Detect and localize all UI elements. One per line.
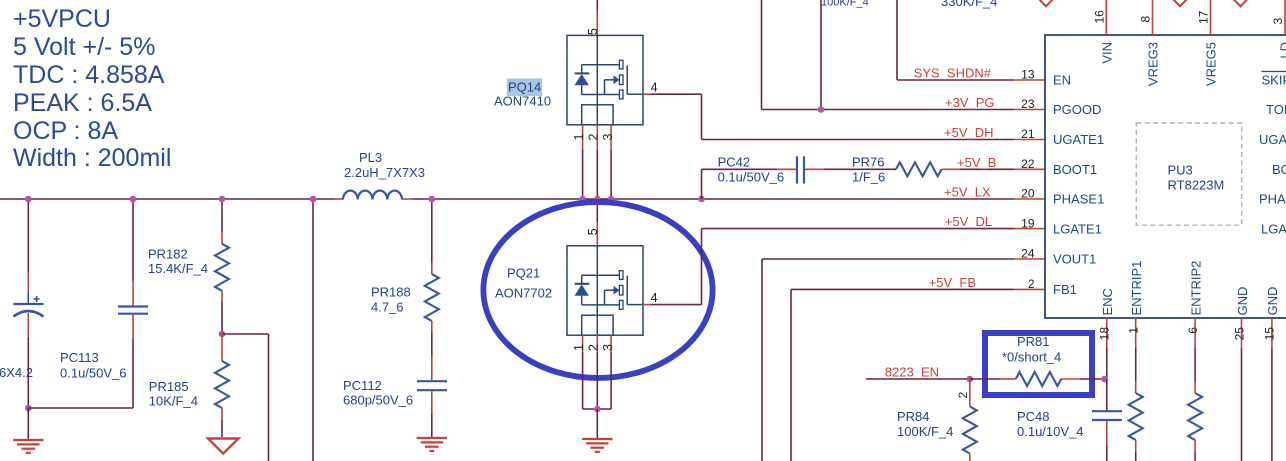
pin number 4 (PQ21) — [651, 291, 658, 305]
svg-text:VIN: VIN — [1100, 42, 1115, 64]
pin 6 number — [1186, 327, 1200, 334]
wire PC42 to PR76 — [805, 168, 897, 170]
svg-text:GND: GND — [1235, 287, 1250, 316]
wire VIN pin 16 — [1105, 0, 1107, 35]
resistor PR188 — [371, 274, 439, 321]
resistor PR84 100K/F_4 — [897, 407, 977, 454]
svg-text:5: 5 — [586, 228, 600, 235]
wire junction to PC113 — [28, 407, 133, 409]
svg-text:19: 19 — [1021, 216, 1035, 230]
wire PQ21 pin 2 — [596, 335, 598, 409]
svg-text:ENTRIP1: ENTRIP1 — [1129, 261, 1144, 316]
svg-text:+3V_PG: +3V_PG — [945, 95, 995, 110]
svg-text:ENC: ENC — [1100, 288, 1115, 315]
svg-text:5 Volt +/- 5%: 5 Volt +/- 5% — [13, 33, 155, 61]
svg-text:EN: EN — [1053, 73, 1071, 88]
svg-text:Width : 200mil: Width : 200mil — [13, 144, 171, 172]
ground (triangle) under PR185 — [208, 439, 239, 454]
wire PC113 to ground wire — [132, 315, 134, 408]
svg-text:1: 1 — [572, 134, 586, 141]
svg-text:PR185: PR185 — [149, 379, 189, 394]
svg-text:21: 21 — [1021, 127, 1035, 141]
capacitor PC42 — [718, 155, 804, 185]
wire PR185 to ground — [221, 408, 223, 437]
wire PC48 to edge — [1106, 421, 1108, 461]
svg-text:UGATE1: UGATE1 — [1053, 132, 1104, 147]
resistor PR182 — [148, 244, 229, 291]
dashed inner box — [1136, 123, 1241, 225]
wire bus down at x=313 — [312, 199, 314, 461]
svg-text:100K/F_4: 100K/F_4 — [897, 424, 953, 439]
wire PQ21 gate pin 4 to LGATE1 — [643, 229, 1045, 305]
svg-text:0.1u/10V_4: 0.1u/10V_4 — [1017, 424, 1084, 439]
svg-text:PR76: PR76 — [852, 155, 885, 170]
svg-text:PU3: PU3 — [1168, 163, 1193, 178]
svg-text:25: 25 — [1232, 327, 1246, 341]
pin 16 number — [1093, 10, 1107, 24]
svg-text:20: 20 — [1021, 187, 1035, 201]
pin name ENC — [1100, 288, 1115, 315]
svg-text:RT8223M: RT8223M — [1168, 178, 1225, 193]
wire VREG3 pin 8 — [1152, 0, 1154, 35]
pin number 2 (PR84) — [956, 392, 970, 399]
svg-text:PQ14: PQ14 — [508, 80, 541, 95]
svg-text:+5V_FB: +5V_FB — [929, 275, 976, 290]
svg-text:1: 1 — [572, 344, 586, 351]
pin 18 number — [1098, 327, 1112, 341]
svg-text:0.1u/50V_6: 0.1u/50V_6 — [718, 170, 785, 185]
wire junction to PR81 — [970, 378, 1016, 380]
net +5V_B — [957, 155, 996, 170]
pin name VIN — [1100, 42, 1115, 64]
svg-text:10K/F_4: 10K/F_4 — [149, 394, 198, 409]
highlight on PQ14 refdes — [507, 79, 542, 97]
node bus x=432 — [429, 196, 436, 203]
wire drain PQ14 pin 5 — [596, 0, 598, 35]
svg-text:8: 8 — [1139, 16, 1153, 23]
node ENC junction — [1101, 376, 1108, 383]
node PQ21 source junction — [594, 406, 601, 413]
node PEC/PC113 ground junction — [25, 405, 32, 412]
pin name partial top right — [1278, 42, 1286, 59]
wire bus to PEC cap — [27, 199, 29, 303]
wire ENTRIP1 pin 1 — [1135, 318, 1137, 393]
node bus PQ14 pin1 — [579, 196, 586, 203]
svg-text:16: 16 — [1093, 10, 1107, 24]
wire PQ14 gate pin 4 to UGATE1 — [643, 94, 1045, 139]
pin 17 number — [1197, 10, 1211, 24]
svg-text:17: 17 — [1197, 10, 1211, 24]
power symbol diamond 3 — [1233, 0, 1248, 6]
svg-text:OCP : 8A: OCP : 8A — [13, 117, 118, 145]
svg-text:ENTRIP2: ENTRIP2 — [1188, 261, 1203, 316]
wire PQ21 pin 3 — [610, 335, 612, 409]
wire junction to PR185 — [221, 334, 223, 361]
wire PQ14 pin 2 — [596, 125, 598, 199]
svg-text:2: 2 — [587, 344, 601, 351]
capacitor PC48 0.1u/10V_4 — [1017, 409, 1122, 439]
pin name GND 15 — [1265, 287, 1280, 316]
pin name GND 25 — [1235, 287, 1250, 316]
svg-text:3: 3 — [601, 134, 615, 141]
resistor PR76 — [852, 155, 941, 185]
wire PR182 to node — [221, 291, 223, 334]
svg-text:PC42: PC42 — [718, 155, 751, 170]
wire bus to PQ21 pin 5 — [596, 199, 598, 246]
svg-text:22: 22 — [1021, 157, 1035, 171]
svg-text:SYS_SHDN#: SYS_SHDN# — [914, 66, 992, 81]
svg-text:VOUT1: VOUT1 — [1053, 252, 1096, 267]
node bus x=313 — [310, 196, 317, 203]
svg-text:2: 2 — [1028, 277, 1035, 291]
capacitor PEC 6X4.2 (electrolytic) — [0, 296, 44, 380]
svg-text:VREG5: VREG5 — [1204, 42, 1219, 86]
svg-text:24: 24 — [1021, 247, 1035, 261]
IC right pin names (partial) — [1259, 72, 1286, 237]
pin 15 number — [1263, 327, 1277, 341]
node bus PQ14 pin2 — [594, 196, 601, 203]
node bus x=133 — [130, 196, 137, 203]
svg-text:SKIP: SKIP — [1262, 73, 1286, 88]
svg-text:GND: GND — [1265, 287, 1280, 316]
svg-text:13: 13 — [1021, 68, 1035, 82]
wire +3V_PG left vertical — [762, 0, 1046, 110]
wire ENC pin 18 — [1106, 318, 1108, 379]
svg-text:LD: LD — [1278, 42, 1286, 59]
svg-text:BOOT1: BOOT1 — [1053, 162, 1097, 177]
pin name ENTRIP1 — [1129, 261, 1144, 316]
svg-text:PR188: PR188 — [371, 285, 411, 300]
pin 8 number — [1139, 16, 1153, 23]
svg-text:1: 1 — [1127, 327, 1141, 334]
svg-text:2: 2 — [587, 134, 601, 141]
highlight box around PR81 — [985, 333, 1092, 395]
svg-text:+5V_LX: +5V_LX — [944, 185, 991, 200]
svg-text:+5V_B: +5V_B — [957, 155, 996, 170]
svg-text:1/F_6: 1/F_6 — [852, 170, 885, 185]
pin number 4 (PQ14) — [651, 81, 658, 95]
wire bus to PC113 — [132, 199, 134, 306]
svg-text:TDC : 4.858A: TDC : 4.858A — [13, 61, 165, 89]
svg-text:PR81: PR81 — [1017, 334, 1050, 349]
pin name VREG5 — [1204, 42, 1219, 86]
svg-text:PHASE2: PHASE2 — [1259, 192, 1286, 207]
wire ENTRIP1 resistor to edge — [1135, 440, 1137, 461]
ground under PQ21 — [582, 439, 612, 452]
node bus PQ14 pin3 — [608, 196, 615, 203]
wire 8223_EN — [866, 378, 970, 380]
power symbol diamond 2 — [1173, 0, 1188, 6]
svg-text:AON7410: AON7410 — [494, 94, 551, 109]
pin 3 number — [1271, 18, 1285, 25]
wire PEC to ground node — [27, 313, 29, 408]
inductor PL3 — [343, 150, 425, 200]
capacitor PC112 — [343, 378, 447, 408]
resistor below ENTRIP2 — [1188, 393, 1202, 440]
svg-text:*0/short_4: *0/short_4 — [1002, 349, 1061, 364]
pin name ENTRIP2 — [1188, 261, 1203, 316]
wire ENTRIP2 pin 6 — [1194, 318, 1196, 393]
svg-text:3: 3 — [1271, 18, 1285, 25]
svg-text:2: 2 — [956, 392, 970, 399]
wire junction right and down — [222, 334, 269, 461]
IC left pin numbers — [1021, 68, 1035, 291]
wire GND pin 25 — [1241, 318, 1243, 461]
capacitor PC113 — [60, 307, 148, 381]
svg-text:23: 23 — [1021, 97, 1035, 111]
pin numbers 1 2 3 (PQ14) — [572, 134, 615, 141]
svg-text:330K/F_4: 330K/F_4 — [941, 0, 997, 9]
net +5V_LX — [944, 185, 991, 200]
wire PR84 to edge — [969, 454, 971, 461]
wire GND pin 15 — [1271, 318, 1273, 461]
op-amp/controller U PU3 RT8223M box — [1045, 35, 1286, 318]
node bus x=28 — [25, 196, 32, 203]
svg-text:PC112: PC112 — [343, 378, 382, 393]
svg-text:4: 4 — [651, 291, 658, 305]
pin name VREG3 — [1146, 42, 1161, 86]
net +5V_DL — [945, 214, 992, 229]
svg-text:15.4K/F_4: 15.4K/F_4 — [148, 261, 208, 276]
svg-text:5: 5 — [586, 28, 600, 35]
wire bus to PR182 — [221, 199, 223, 244]
net +3V_PG — [945, 95, 995, 110]
svg-text:15: 15 — [1263, 327, 1277, 341]
wire PQ14 pin 3 — [610, 125, 612, 199]
wire bus up to BOOT1 row — [701, 169, 703, 199]
svg-text:18: 18 — [1098, 327, 1112, 341]
node bus x=222 — [219, 196, 226, 203]
pin 1 number — [1127, 327, 1141, 334]
net +5V_DH — [944, 125, 994, 140]
node +3V_PG junction — [818, 106, 825, 113]
svg-text:PGOOD: PGOOD — [1053, 102, 1101, 117]
wire BOOT1 row left segment — [702, 168, 797, 170]
svg-text:PC113: PC113 — [60, 350, 99, 365]
svg-text:UGATE2: UGATE2 — [1259, 132, 1286, 147]
svg-text:3: 3 — [601, 344, 615, 351]
svg-text:PEAK : 6.5A: PEAK : 6.5A — [13, 89, 152, 117]
resistor PR81 *0/short_4 — [1002, 334, 1061, 386]
svg-text:LGATE1: LGATE1 — [1053, 221, 1102, 236]
svg-text:PHASE1: PHASE1 — [1053, 192, 1104, 207]
svg-text:8223_EN: 8223_EN — [885, 365, 939, 380]
svg-text:680p/50V_6: 680p/50V_6 — [343, 393, 413, 408]
svg-text:PQ21: PQ21 — [507, 266, 540, 281]
IC left pin names — [1053, 73, 1104, 297]
wire junction down to PR84 — [969, 379, 971, 407]
svg-text:TONSEL: TONSEL — [1266, 102, 1286, 117]
svg-text:0.1u/50V_6: 0.1u/50V_6 — [60, 366, 127, 381]
svg-text:4.7_6: 4.7_6 — [371, 300, 404, 315]
svg-text:+5V_DH: +5V_DH — [944, 125, 994, 140]
svg-text:FB1: FB1 — [1053, 282, 1077, 297]
svg-text:AON7702: AON7702 — [495, 286, 552, 301]
node bus x=701 — [698, 196, 705, 203]
wire PC112 to ground — [431, 391, 433, 437]
net 8223_EN — [885, 365, 939, 380]
wire FB1 +5V_FB — [791, 289, 1045, 461]
svg-text:PR182: PR182 — [148, 247, 188, 262]
ground under PC112 — [417, 438, 447, 451]
wire PQ14 pin 1 — [582, 125, 584, 199]
transistor PQ14 AON7410 — [494, 35, 643, 124]
pin 25 number — [1232, 327, 1246, 341]
wire SYS_SHDN# to EN — [897, 0, 1045, 80]
net SYS_SHDN# — [914, 66, 992, 81]
svg-text:6: 6 — [1186, 327, 1200, 334]
node PR182/PR185 junction — [219, 331, 226, 338]
node 8223_EN junction — [967, 376, 974, 383]
svg-text:+5VPCU: +5VPCU — [13, 5, 111, 33]
wire to PQ21 ground — [596, 409, 598, 438]
transistor PQ21 AON7702 — [495, 246, 643, 335]
pin numbers 1 2 3 (PQ21) — [572, 344, 615, 351]
wire PR81 to ENC node — [1061, 378, 1104, 380]
svg-text:PC48: PC48 — [1017, 409, 1050, 424]
net +5V_FB — [929, 275, 976, 290]
wire PR188 to PC112 — [431, 321, 433, 380]
wire +5V_LX bus — [0, 198, 1045, 200]
label PU3 RT8223M — [1168, 163, 1225, 193]
wire ENTRIP2 resistor to edge — [1194, 440, 1196, 461]
wire ENC to PC48 — [1106, 379, 1108, 411]
svg-text:PR84: PR84 — [897, 409, 930, 424]
ground under PEC — [13, 408, 43, 453]
svg-text:PL3: PL3 — [359, 150, 382, 165]
wire PR76 to BOOT1 — [942, 168, 1046, 170]
partial label 330K/F_4 — [941, 0, 997, 9]
svg-text:+5V_DL: +5V_DL — [945, 214, 992, 229]
svg-text:4: 4 — [651, 81, 658, 95]
wire PQ21 pin 1 — [582, 335, 584, 409]
highlight ellipse around PQ21 — [483, 202, 712, 378]
partial label 100K/F_4 — [821, 0, 869, 9]
wire bus to PR188 — [431, 199, 433, 274]
power symbol diamond 1 — [1039, 0, 1054, 6]
info text block — [13, 5, 171, 172]
svg-text:2.2uH_7X7X3: 2.2uH_7X7X3 — [344, 165, 425, 180]
svg-text:VREG3: VREG3 — [1146, 42, 1161, 86]
pin number 5 (PQ14) — [586, 28, 600, 35]
wire VOUT1 — [762, 259, 1045, 461]
wire vertical at x=821 — [820, 0, 822, 110]
pin number 5 (PQ21) — [586, 228, 600, 235]
wire PQ21 source bracket — [583, 408, 612, 410]
svg-text:LGATE2: LGATE2 — [1261, 221, 1286, 236]
svg-text:BOOT2: BOOT2 — [1272, 162, 1286, 177]
resistor PR185 — [149, 361, 229, 409]
wire VREG5 pin 17 — [1210, 0, 1212, 35]
resistor below ENTRIP1 — [1129, 393, 1143, 440]
svg-text:100K/F_4: 100K/F_4 — [821, 0, 869, 9]
wire pin 3 top right — [1284, 0, 1286, 35]
